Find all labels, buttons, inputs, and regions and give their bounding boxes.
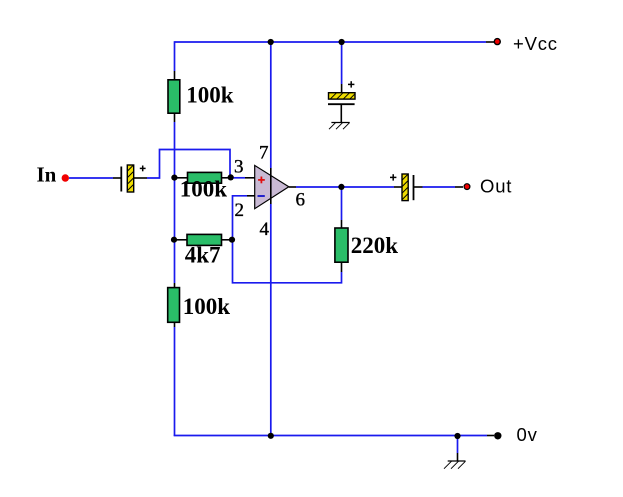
svg-text:100k: 100k	[180, 177, 228, 202]
ground under C3	[329, 123, 350, 130]
capacitor C2 output electrolytic	[402, 174, 414, 201]
junction node output/220k	[338, 184, 344, 190]
wire left vertical bias chain	[174, 41, 176, 436]
op-amp U1	[255, 165, 289, 208]
node In terminal dot	[62, 174, 69, 181]
junction node pin3/R2 left	[171, 175, 177, 181]
capacitor C2 polarity +	[390, 174, 396, 180]
svg-text:4k7: 4k7	[185, 243, 221, 268]
svg-text:6: 6	[296, 190, 306, 211]
resistor R3 4k7	[187, 234, 222, 245]
wire op-amp power vertical (pin7 to pin4)	[270, 42, 272, 436]
junction node Vcc/C3	[339, 39, 345, 45]
junction node pin3/R2 right	[228, 174, 234, 180]
svg-text:0v: 0v	[517, 424, 538, 445]
junction node 4k7 left	[171, 237, 177, 243]
wire 0v rail ground tap	[457, 436, 459, 461]
svg-text:2: 2	[235, 200, 245, 221]
node 0v terminal dot	[494, 432, 501, 439]
wire 220k top lead to output node	[341, 187, 343, 228]
capacitor C1 input electrolytic	[121, 165, 133, 192]
wire top +Vcc rail	[175, 41, 495, 43]
resistor R1 100k top	[168, 80, 180, 113]
svg-text:100k: 100k	[183, 294, 231, 319]
svg-text:7: 7	[259, 143, 269, 164]
wire In input to C1	[69, 177, 121, 179]
wire C3 decoupling from +Vcc rail	[341, 42, 343, 93]
resistor R5 220k	[335, 228, 348, 262]
op-amp - input mark	[258, 195, 265, 197]
wire bottom 0v rail	[174, 435, 494, 437]
wire C1 to pin3 node (step over)	[134, 150, 230, 179]
svg-text:+Vcc: +Vcc	[513, 33, 558, 54]
svg-text:100k: 100k	[186, 83, 234, 108]
svg-text:Out: Out	[480, 176, 512, 197]
svg-text:In: In	[37, 162, 57, 186]
svg-text:3: 3	[234, 156, 244, 177]
wire pin2 feedback vertical and to op-amp - input	[233, 196, 342, 283]
svg-text:220k: 220k	[351, 233, 399, 258]
resistor R2 100k horizontal	[188, 172, 222, 183]
wire R2 leads on pin3 row	[175, 177, 231, 179]
resistor R4 100k bottom	[168, 288, 180, 323]
junction node 0v/op-amp power	[268, 433, 274, 439]
junction node 4k7 right	[229, 237, 235, 243]
ground at 0v rail	[444, 461, 466, 469]
wire pin3 node to op-amp + input	[231, 177, 255, 179]
junction node Vcc/op-amp power	[268, 39, 274, 45]
capacitor C3 polarity +	[348, 81, 354, 87]
junction node 0v/ground tap	[454, 433, 460, 439]
capacitor C3 decoupling electrolytic	[328, 93, 355, 123]
op-amp + input mark	[258, 177, 265, 184]
node +Vcc terminal dot	[494, 39, 500, 45]
svg-text:4: 4	[260, 219, 270, 240]
wire R3 4k7 leads	[175, 239, 233, 241]
node Out terminal dot	[464, 184, 470, 190]
capacitor C1 polarity +	[140, 166, 146, 172]
wire op-amp output pin6 to C2 and Out	[289, 186, 463, 188]
